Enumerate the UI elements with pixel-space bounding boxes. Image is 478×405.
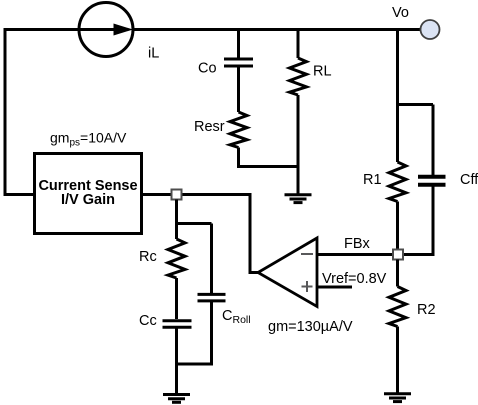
- svg-text:I/V Gain: I/V Gain: [61, 192, 115, 208]
- wire Rc to Cc: [175, 278, 178, 319]
- op-amp minus sign: [301, 253, 313, 255]
- svg-text:Resr: Resr: [194, 119, 225, 135]
- svg-text:gm=130µA/V: gm=130µA/V: [268, 319, 353, 335]
- capacitor C_Roll: [198, 294, 226, 301]
- wire inverting input to FBx: [317, 253, 393, 256]
- wire left vertical: [4, 28, 7, 195]
- resistor Resr: [230, 112, 247, 148]
- wire branch rail to Cff: [398, 103, 434, 106]
- capacitor Cc: [163, 321, 192, 328]
- svg-text:FBx: FBx: [344, 236, 371, 252]
- svg-text:Vo: Vo: [392, 5, 409, 21]
- wire R2 to ground: [396, 327, 399, 394]
- wire box output to node A: [142, 193, 173, 196]
- resistor Rc: [168, 239, 185, 278]
- wire C_Roll column: [210, 224, 213, 294]
- svg-text:Vref=0.8V: Vref=0.8V: [322, 271, 387, 287]
- ground below Cc: [163, 395, 190, 403]
- wire FBx node to R2: [396, 260, 399, 287]
- wire branch to C_Roll top: [177, 222, 212, 225]
- current source iL: [79, 3, 133, 57]
- svg-text:Rc: Rc: [139, 249, 157, 265]
- wire Cff top column: [432, 105, 435, 177]
- resistor RL: [290, 58, 307, 95]
- resistor R2: [389, 287, 406, 327]
- svg-text:R2: R2: [417, 302, 436, 318]
- svg-text:Cc: Cc: [139, 313, 157, 329]
- resistor R1: [389, 162, 406, 202]
- wire Cff bottom to FBx node: [403, 185, 433, 255]
- svg-text:Co: Co: [198, 61, 217, 77]
- svg-text:gmps=10A/V: gmps=10A/V: [50, 130, 127, 149]
- node Vo terminal: [421, 20, 440, 39]
- svg-text:RL: RL: [313, 64, 332, 80]
- wire R1 column from rail: [396, 30, 399, 163]
- node A square: [172, 190, 182, 200]
- capacitor Cff: [418, 177, 446, 185]
- capacitor Co: [224, 59, 253, 66]
- wire Co to Resr: [237, 66, 240, 112]
- ground below R2: [384, 394, 411, 402]
- wire non-inverting input stub: [317, 286, 352, 289]
- wire top rail: [4, 28, 422, 31]
- wire node A down to Rc: [175, 200, 178, 240]
- svg-text:Cff: Cff: [460, 172, 478, 188]
- wire RL column from rail: [297, 30, 300, 59]
- ground below RL: [285, 195, 312, 203]
- wire C_Roll bottom to junction: [175, 301, 212, 364]
- op-amp U2: [258, 238, 317, 307]
- svg-text:iL: iL: [148, 46, 159, 62]
- svg-text:R1: R1: [363, 172, 382, 188]
- wire Resr bottom to RL column: [239, 148, 299, 167]
- op-amp plus sign: [302, 281, 313, 292]
- wire R1 bottom to FBx node: [396, 202, 399, 250]
- box U1 Current Sense I/V Gain: [35, 154, 142, 234]
- wire node A to op-amp output: [181, 195, 259, 273]
- node FBx square: [393, 250, 403, 260]
- wire RL bottom to ground: [297, 95, 300, 194]
- wire Cc to ground: [175, 327, 178, 394]
- svg-text:CRoll: CRoll: [222, 308, 251, 326]
- wire Co column from rail: [237, 30, 240, 58]
- wire into box left: [4, 193, 35, 196]
